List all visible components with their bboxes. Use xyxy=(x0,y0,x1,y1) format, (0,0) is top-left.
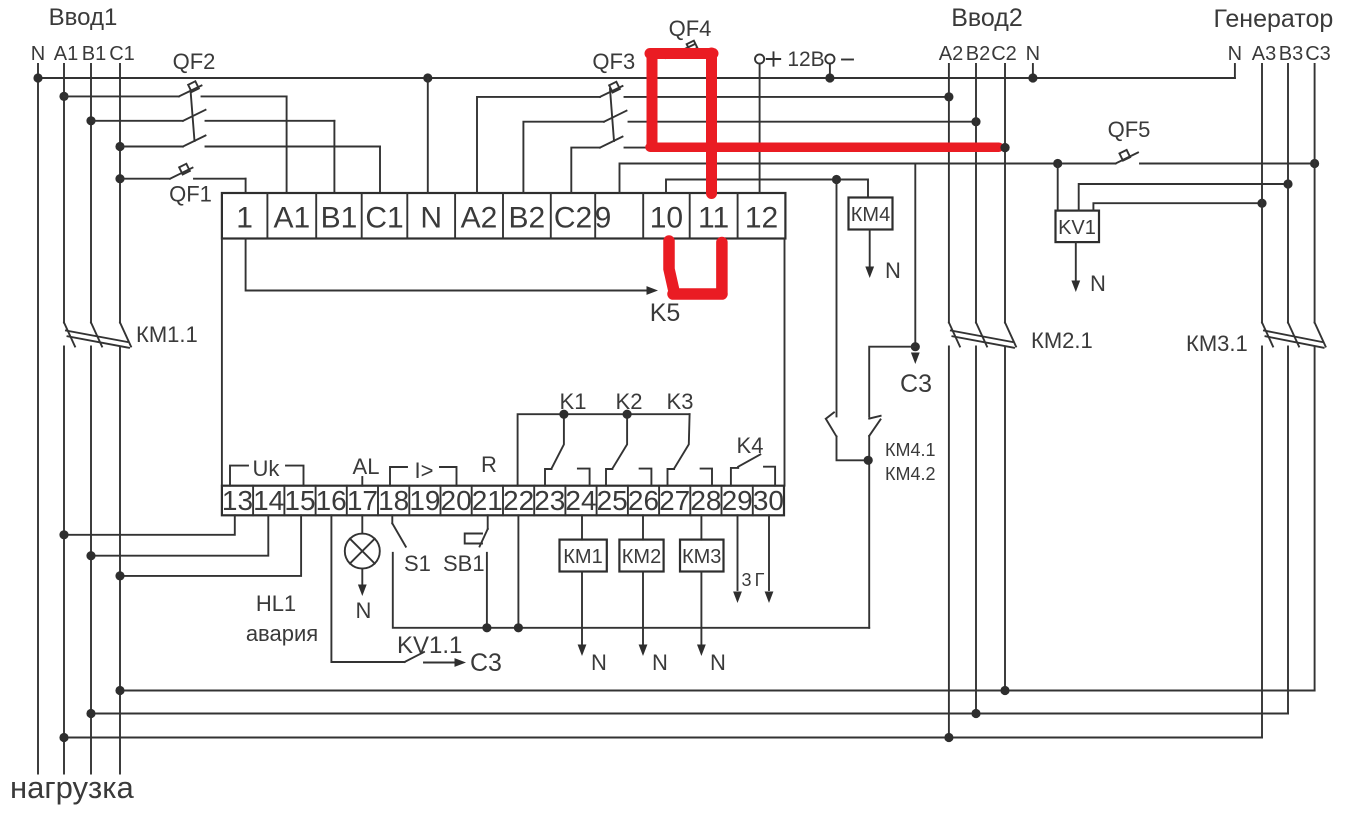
svg-text:N: N xyxy=(420,202,442,235)
red marker drop to terminal 11 xyxy=(706,150,717,194)
wire terminal C2 drop xyxy=(571,148,600,193)
wire terminal 16 down xyxy=(331,515,404,662)
svg-text:A1: A1 xyxy=(273,202,310,235)
relay coil KM3 xyxy=(700,515,702,539)
svg-text:9: 9 xyxy=(595,202,612,235)
wire B3 vertical lower xyxy=(1287,347,1289,714)
relay contact K1 xyxy=(545,414,590,486)
contactor contact KM3.1 xyxy=(1262,323,1273,347)
svg-text:N: N xyxy=(710,650,726,675)
svg-text:12: 12 xyxy=(745,202,778,235)
wire terminal B2 drop xyxy=(523,122,604,193)
wire N1 vertical xyxy=(37,64,39,774)
wire S1 to bus xyxy=(393,553,869,628)
svg-text:3: 3 xyxy=(741,570,751,590)
contactor contact KM1.1 xyxy=(64,323,75,347)
wire B1 vertical lower xyxy=(90,347,92,774)
wire terminal 22 to bus xyxy=(517,515,519,628)
svg-text:27: 27 xyxy=(659,485,690,516)
wire QF1 to terminal 1 xyxy=(245,179,247,193)
svg-text:I>: I> xyxy=(415,458,434,483)
svg-text:N: N xyxy=(885,258,901,283)
arrow to N (KM4) xyxy=(865,267,874,279)
svg-text:A2: A2 xyxy=(461,202,498,235)
svg-text:C1: C1 xyxy=(365,202,403,235)
wire C1 vertical lower xyxy=(119,347,121,774)
wire C3 branch to KM4.2 xyxy=(869,347,915,417)
wire C2 vertical upper xyxy=(1004,64,1006,323)
svg-text:B1: B1 xyxy=(321,202,358,235)
svg-text:N: N xyxy=(591,650,607,675)
svg-text:28: 28 xyxy=(690,485,721,516)
wire terminal 15 to C1 xyxy=(120,515,301,576)
svg-text:1: 1 xyxy=(236,202,253,235)
switch S1 xyxy=(392,523,406,546)
wire KV1 lead 1 xyxy=(1057,164,1059,211)
wire KV1.1 arrow to C3 xyxy=(424,662,455,664)
junction QF3-A2 (Ввод2) xyxy=(944,92,953,101)
arrow to K5 xyxy=(647,286,659,295)
breaker QF5 xyxy=(1116,153,1315,164)
svg-text:Генератор: Генератор xyxy=(1214,5,1334,33)
svg-text:авария: авария xyxy=(246,621,318,646)
wire QF2-C1 drop to terminal C1 xyxy=(379,147,381,194)
svg-text:Г: Г xyxy=(755,570,765,590)
junction bus-terminal N xyxy=(423,73,432,82)
junction B1-load xyxy=(86,709,95,718)
breaker QF3 pole 2 (B2) xyxy=(604,111,976,122)
wire +12V to terminal 12 xyxy=(759,64,761,193)
wire A2 vertical lower xyxy=(948,347,950,738)
wire C3 vertical upper xyxy=(1314,64,1316,323)
red marker QF4 loop xyxy=(650,53,713,147)
terminal strip X1 dividers xyxy=(266,193,268,239)
wire terminal 11 bottom stub xyxy=(721,239,723,293)
svg-text:C1: C1 xyxy=(109,43,135,65)
svg-text:30: 30 xyxy=(753,485,784,516)
wire terminal 30 output xyxy=(768,515,770,590)
svg-text:16: 16 xyxy=(316,485,347,516)
breaker QF2 pole 3 (C1) xyxy=(120,136,380,147)
wire load bus C xyxy=(120,690,1315,692)
wire B3 vertical upper xyxy=(1287,64,1289,323)
svg-text:10: 10 xyxy=(650,202,683,235)
wire device left edge xyxy=(221,239,223,486)
svg-text:14: 14 xyxy=(253,485,284,516)
wire K-bus from terminal 22 xyxy=(518,414,690,486)
wire terminal 29 output xyxy=(737,515,739,590)
svg-text:КМ4: КМ4 xyxy=(851,204,890,226)
svg-text:N: N xyxy=(652,650,668,675)
wire terminal 10 to KM4 xyxy=(666,180,868,198)
svg-text:B2: B2 xyxy=(966,43,990,65)
svg-text:QF5: QF5 xyxy=(1108,117,1151,142)
wire QF4 to terminal 11 xyxy=(711,58,713,193)
wire terminal 9 to QF5 xyxy=(620,164,1116,194)
junction QF3-B2 (Ввод2) xyxy=(971,117,980,126)
label I> bracket xyxy=(390,467,457,486)
svg-text:KV1.1: KV1.1 xyxy=(397,632,462,659)
junction B1-QF2 xyxy=(86,116,95,125)
svg-text:13: 13 xyxy=(222,485,253,516)
junction B2-load xyxy=(971,709,980,718)
wire KM4.2 to junction xyxy=(868,436,870,628)
svg-text:A2: A2 xyxy=(939,43,963,65)
wire KV1 coil to N xyxy=(1075,242,1077,280)
pushbutton SB1 xyxy=(465,529,488,547)
wire terminal 14 to B1 xyxy=(91,515,268,555)
breaker QF3 linkage xyxy=(610,89,614,141)
svg-text:15: 15 xyxy=(284,485,315,516)
junction QF5-C3 xyxy=(1310,159,1319,168)
red marker K5 loop (terminals 10-11) xyxy=(669,241,722,294)
svg-text:КМ3: КМ3 xyxy=(682,546,721,568)
svg-text:КМ2: КМ2 xyxy=(622,546,661,568)
arrow to N (KV1) xyxy=(1071,281,1080,293)
svg-text:19: 19 xyxy=(409,485,440,516)
junction A1-QF2 xyxy=(59,92,68,101)
junction KM4.1 tap xyxy=(832,175,841,184)
svg-text:A1: A1 xyxy=(54,43,78,65)
svg-text:Ввод1: Ввод1 xyxy=(49,4,118,31)
junction KV1 lead on 9-line xyxy=(1053,159,1062,168)
svg-text:B3: B3 xyxy=(1279,43,1303,65)
wire A1 vertical upper xyxy=(63,64,65,323)
svg-text:A3: A3 xyxy=(1252,43,1276,65)
contactor contact KM2.1 xyxy=(949,323,960,347)
red marker band to C2 xyxy=(650,142,999,152)
junction N1-bus xyxy=(33,73,42,82)
relay contact K3 xyxy=(668,414,713,486)
junction -12V on N bus xyxy=(825,73,834,82)
wire KM4.1 to junction xyxy=(837,437,869,461)
relay coil KM4 xyxy=(849,198,893,230)
svg-text:22: 22 xyxy=(503,485,534,516)
svg-text:20: 20 xyxy=(441,485,472,516)
breaker QF4 xyxy=(666,44,712,58)
wire A3 vertical lower xyxy=(1261,347,1263,738)
wire load bus B xyxy=(91,713,1288,715)
svg-text:21: 21 xyxy=(472,485,503,516)
svg-text:QF1: QF1 xyxy=(169,182,212,207)
wire C1 vertical upper xyxy=(119,64,121,323)
wire terminal A2 drop xyxy=(477,97,600,193)
wire device right edge xyxy=(784,239,786,486)
junction C3 branch xyxy=(911,342,920,351)
breaker QF3 pole 3 (C2) xyxy=(600,137,1005,148)
svg-text:N: N xyxy=(1228,43,1242,65)
svg-text:K4: K4 xyxy=(737,433,764,458)
wire B1 vertical upper xyxy=(90,64,92,323)
junction C1-load xyxy=(115,686,124,695)
junction QF3-C2 (over marker) xyxy=(1000,143,1009,152)
svg-text:K2: K2 xyxy=(616,389,643,414)
svg-text:N: N xyxy=(31,43,45,65)
wire A2 vertical upper xyxy=(948,64,950,323)
svg-text:КМ2.1: КМ2.1 xyxy=(1031,328,1093,353)
relay contact K4 xyxy=(731,454,775,485)
svg-text:нагрузка: нагрузка xyxy=(10,770,135,805)
svg-text:SB1: SB1 xyxy=(443,551,485,576)
wire N2 to bus xyxy=(1032,64,1034,78)
junction C1-QF2 xyxy=(115,142,124,151)
svg-text:QF4: QF4 xyxy=(669,16,712,41)
svg-text:18: 18 xyxy=(378,485,409,516)
junction C1-QF1 xyxy=(115,174,124,183)
svg-text:QF2: QF2 xyxy=(173,49,216,74)
relay contact K2 xyxy=(606,414,651,486)
breaker QF1 xyxy=(120,168,246,179)
svg-text:Uk: Uk xyxy=(253,456,281,481)
svg-text:K1: K1 xyxy=(560,389,587,414)
junction A1-load xyxy=(59,733,68,742)
svg-text:N: N xyxy=(356,598,372,623)
svg-text:S1: S1 xyxy=(404,551,431,576)
svg-text:AL: AL xyxy=(353,454,380,479)
terminal strip X2 (13..30) outline xyxy=(222,486,784,516)
svg-text:23: 23 xyxy=(534,485,565,516)
breaker QF2 pole 2 (B1) xyxy=(91,110,334,121)
wire A3 vertical upper xyxy=(1261,64,1263,323)
svg-text:КМ1.1: КМ1.1 xyxy=(136,322,198,347)
breaker QF2 pole 1 (A1) xyxy=(64,86,287,97)
svg-text:11: 11 xyxy=(698,202,729,235)
wire N bus (top) xyxy=(38,77,1235,79)
svg-text:КМ4.2: КМ4.2 xyxy=(885,464,936,484)
junction KV1-B3 xyxy=(1283,179,1292,188)
node +12V terminal xyxy=(755,54,764,63)
wire QF2-B1 drop to terminal B1 xyxy=(333,121,335,193)
svg-text:24: 24 xyxy=(565,485,596,516)
svg-text:12В: 12В xyxy=(787,48,824,71)
svg-text:Ввод2: Ввод2 xyxy=(951,4,1023,32)
wire B2 vertical upper xyxy=(975,64,977,323)
junction QF3-C2 (Ввод2) xyxy=(1000,143,1009,152)
wire load bus A xyxy=(64,737,1262,739)
lamp HL1 xyxy=(345,534,380,569)
svg-text:26: 26 xyxy=(628,485,659,516)
contact KV1.1 xyxy=(405,652,424,662)
junction A2-load xyxy=(944,733,953,742)
svg-text:C2: C2 xyxy=(991,43,1017,65)
svg-text:17: 17 xyxy=(347,485,378,516)
wire SB1 to bus xyxy=(486,553,488,628)
wire KV1 lead 3 to A3 xyxy=(1093,203,1262,210)
label Uk bracket xyxy=(230,466,304,486)
wire KM4 coil to N xyxy=(869,230,871,267)
svg-text:С3: С3 xyxy=(470,649,502,677)
wire terminal 13 to A1 xyxy=(64,515,235,535)
svg-text:B2: B2 xyxy=(509,202,546,235)
wire C2 vertical lower xyxy=(1004,347,1006,691)
wire B2 vertical lower xyxy=(975,347,977,714)
breaker QF3 pole 1 (A2) xyxy=(600,86,949,97)
node -12V terminal xyxy=(825,54,834,63)
wire terminal 18 down xyxy=(391,515,393,523)
contact KM4.2 xyxy=(869,416,880,436)
contact KM4.1 xyxy=(826,180,837,437)
wire bus to terminal N xyxy=(427,78,429,193)
junction KV1-A3 xyxy=(1257,199,1266,208)
relay coil KM1 xyxy=(581,515,583,539)
svg-text:С3: С3 xyxy=(900,370,932,398)
svg-text:QF3: QF3 xyxy=(592,49,635,74)
svg-text:C2: C2 xyxy=(554,202,592,235)
wire 9-line branch down (C3 net) xyxy=(914,164,916,347)
svg-text:KV1: KV1 xyxy=(1058,217,1096,239)
wire C3 vertical lower xyxy=(1314,347,1316,691)
wire -12V to N bus xyxy=(829,64,831,78)
terminal strip X2 dividers xyxy=(252,486,254,516)
wire KV1 lead 2 to B3 xyxy=(1079,184,1288,211)
svg-text:N: N xyxy=(1026,43,1040,65)
wire terminal 21 down xyxy=(487,515,489,529)
wire N3 to bus corner xyxy=(1234,64,1236,78)
svg-text:B1: B1 xyxy=(82,43,106,65)
svg-text:HL1: HL1 xyxy=(256,591,296,616)
svg-text:КМ3.1: КМ3.1 xyxy=(1186,331,1248,356)
svg-text:R: R xyxy=(481,452,497,477)
svg-text:N: N xyxy=(1090,271,1106,296)
wire A1 vertical lower xyxy=(63,347,65,774)
svg-text:25: 25 xyxy=(597,485,628,516)
terminal strip X1 (1..12) outline xyxy=(222,193,786,239)
svg-text:K5: K5 xyxy=(650,299,681,327)
junction C2-load xyxy=(1000,686,1009,695)
svg-text:КМ1: КМ1 xyxy=(563,546,602,568)
svg-text:C3: C3 xyxy=(1305,43,1331,65)
wire terminal 1 to K5 xyxy=(246,239,652,291)
svg-text:КМ4.1: КМ4.1 xyxy=(885,440,936,460)
breaker QF2 linkage xyxy=(191,90,195,141)
wire C2 line to QF4 xyxy=(652,58,666,148)
wire lamp to N xyxy=(361,569,363,584)
arrow to C3 (net) xyxy=(911,353,920,365)
junction N2-bus xyxy=(1028,73,1037,82)
relay coil KM2 xyxy=(642,515,644,539)
wire QF2-A1 drop to terminal A1 xyxy=(286,96,288,193)
relay coil KV1 xyxy=(1056,211,1100,243)
svg-text:K3: K3 xyxy=(667,389,694,414)
wire terminal 17 to lamp xyxy=(361,515,363,533)
svg-text:29: 29 xyxy=(722,485,753,516)
junction KM4 contacts xyxy=(864,456,873,465)
